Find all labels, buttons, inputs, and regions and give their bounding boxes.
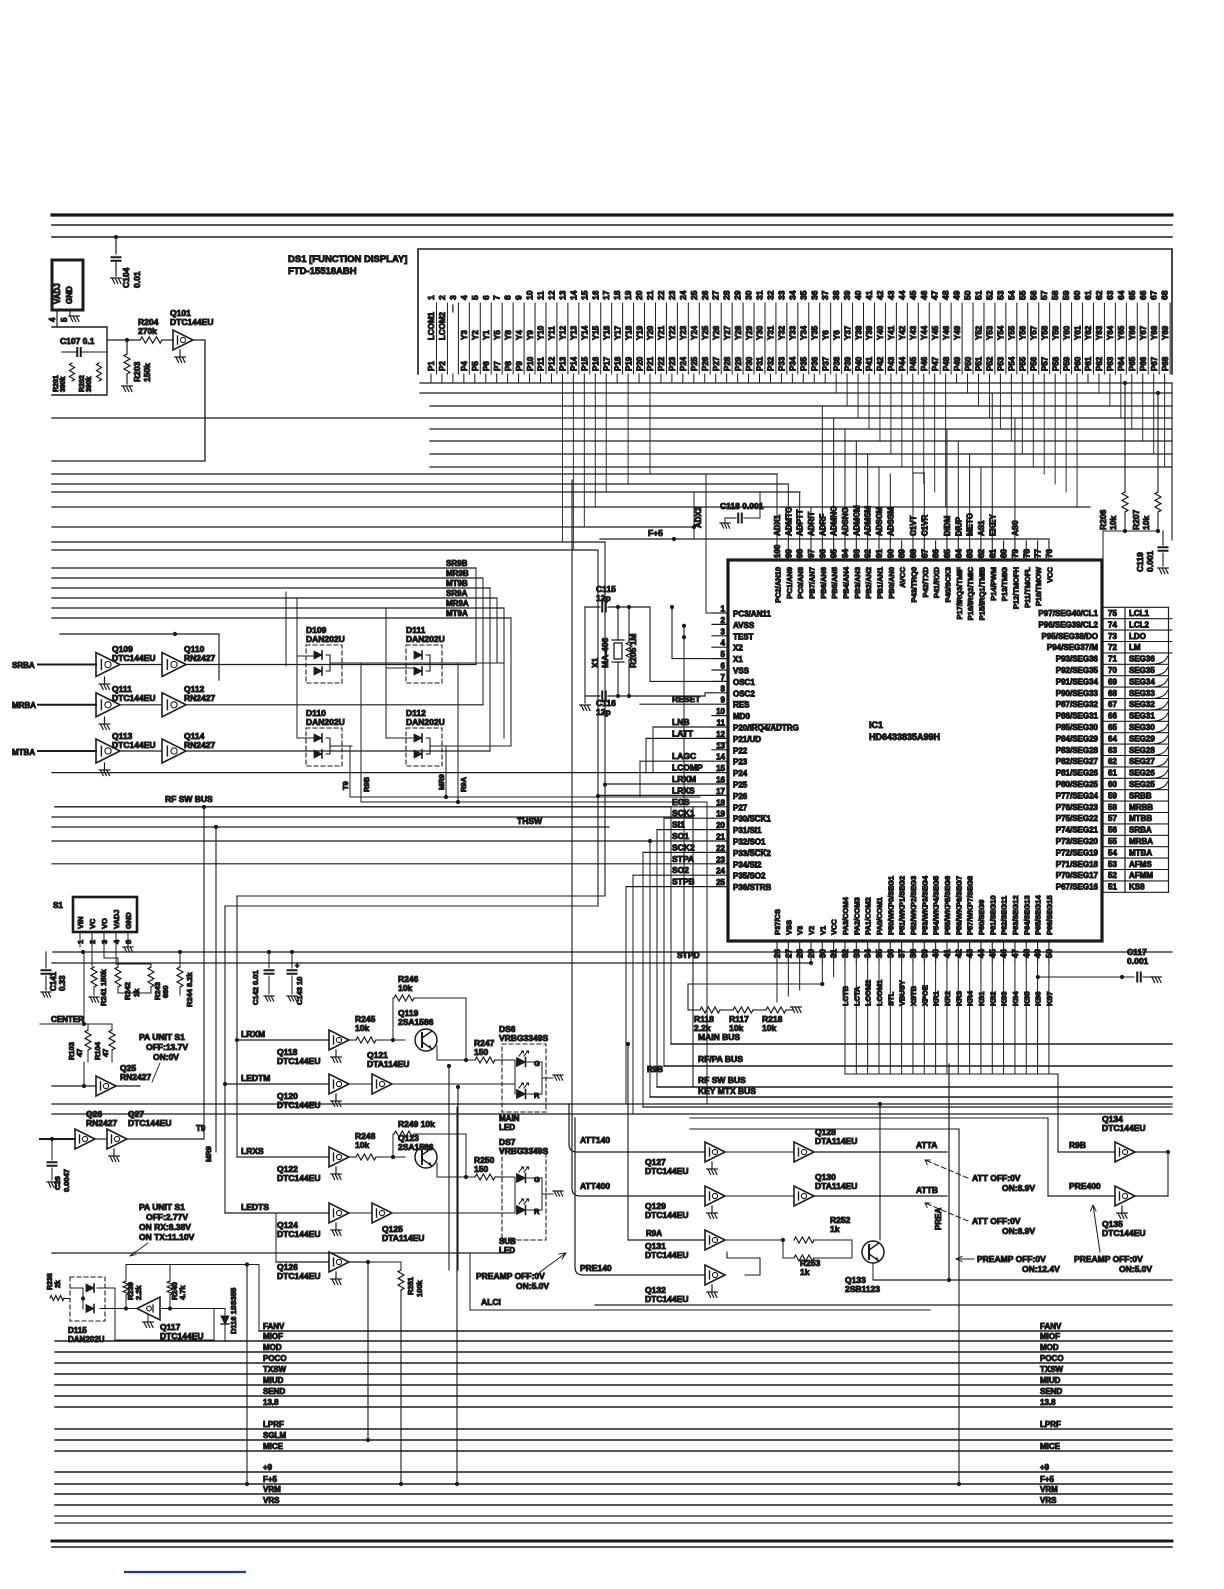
svg-text:4.7k: 4.7k xyxy=(178,1285,187,1300)
IC1 pin 6 VSS xyxy=(712,669,728,671)
svg-text:Y65: Y65 xyxy=(1117,325,1126,340)
svg-text:Y69: Y69 xyxy=(1161,325,1170,340)
svg-text:Y63: Y63 xyxy=(1095,325,1104,340)
svg-text:1k: 1k xyxy=(800,1267,810,1277)
svg-text:RF SW BUS: RF SW BUS xyxy=(165,794,213,804)
svg-text:P23: P23 xyxy=(668,356,677,371)
junction dots bottom xyxy=(245,1482,249,1486)
svg-text:DTC144EU: DTC144EU xyxy=(112,693,155,703)
svg-text:70: 70 xyxy=(1108,666,1117,675)
resistor R243 680 xyxy=(148,967,154,987)
resistor R242 1k xyxy=(117,958,119,966)
svg-text:2SB1123: 2SB1123 xyxy=(845,1284,880,1294)
svg-text:2SA1586: 2SA1586 xyxy=(398,1017,434,1027)
IC1 pin 15 P24 xyxy=(712,772,728,774)
svg-text:VRBG3349S: VRBG3349S xyxy=(499,1033,548,1043)
IC1 pin 10 MD0 xyxy=(712,715,728,717)
svg-text:Y40: Y40 xyxy=(876,325,885,340)
IC1 pin 7 OSC1 xyxy=(712,680,728,682)
svg-text:R251: R251 xyxy=(406,1277,415,1295)
svg-text:63: 63 xyxy=(1105,290,1115,300)
bus SGLM xyxy=(55,1439,1172,1441)
svg-text:ON:0V: ON:0V xyxy=(153,1052,179,1062)
capacitor C104 xyxy=(115,237,117,254)
resistor R241 150k xyxy=(91,947,93,966)
wire bus line y429 xyxy=(430,428,1172,430)
svg-text:P32: P32 xyxy=(767,356,776,371)
wire DS6 anode join xyxy=(514,1062,516,1094)
svg-text:P40/SCK3: P40/SCK3 xyxy=(943,567,952,602)
svg-text:T9: T9 xyxy=(196,1124,206,1133)
svg-text:67: 67 xyxy=(1108,700,1117,709)
svg-text:VO: VO xyxy=(100,918,109,929)
svg-text:Y3: Y3 xyxy=(460,330,469,340)
svg-text:F+5: F+5 xyxy=(263,1475,278,1484)
svg-text:VSS: VSS xyxy=(784,920,793,935)
svg-text:8: 8 xyxy=(503,295,513,300)
svg-text:54: 54 xyxy=(1108,848,1117,857)
svg-text:X1: X1 xyxy=(733,655,743,664)
svg-text:60: 60 xyxy=(1108,780,1117,789)
wire bus line y383 xyxy=(420,382,1172,384)
svg-text:IC1: IC1 xyxy=(869,720,883,730)
svg-text:DTC144EU: DTC144EU xyxy=(277,1056,320,1066)
svg-text:P22: P22 xyxy=(733,746,748,755)
wire lower rail y1253 xyxy=(52,1252,510,1254)
svg-text:DTC144EU: DTC144EU xyxy=(645,1250,688,1260)
svg-text:PB4/AN4: PB4/AN4 xyxy=(841,566,850,599)
svg-text:P29: P29 xyxy=(734,356,743,371)
svg-text:DAN202U: DAN202U xyxy=(68,1335,105,1344)
svg-text:5: 5 xyxy=(721,650,726,659)
svg-text:72: 72 xyxy=(1108,643,1117,652)
svg-text:50: 50 xyxy=(963,290,973,300)
IC1 pin 2 AVSS xyxy=(712,623,728,625)
svg-text:Y39: Y39 xyxy=(865,325,874,340)
svg-text:C118 0.001: C118 0.001 xyxy=(720,501,764,511)
svg-text:P33/SCK2: P33/SCK2 xyxy=(733,849,771,858)
svg-text:40: 40 xyxy=(853,290,863,300)
svg-text:F+5: F+5 xyxy=(648,528,663,538)
svg-text:Y45: Y45 xyxy=(931,325,940,340)
svg-text:P64: P64 xyxy=(1117,356,1126,371)
node FANV branch xyxy=(258,1265,260,1332)
svg-text:58: 58 xyxy=(1108,803,1117,812)
svg-text:MOD: MOD xyxy=(263,1343,282,1352)
svg-text:PRE400: PRE400 xyxy=(1069,1181,1101,1191)
bus FANV xyxy=(259,1330,1172,1332)
svg-text:P43/TRQ0: P43/TRQ0 xyxy=(909,567,918,602)
svg-text:ON:8.9V: ON:8.9V xyxy=(1002,1226,1035,1236)
svg-text:SRBA: SRBA xyxy=(12,661,35,670)
svg-text:P57/WKP7/SEG8: P57/WKP7/SEG8 xyxy=(966,876,975,935)
svg-text:65: 65 xyxy=(1108,723,1117,732)
svg-text:PB1/AN1: PB1/AN1 xyxy=(875,567,884,599)
svg-text:DTC144EU: DTC144EU xyxy=(645,1166,688,1176)
svg-text:ON:8.9V: ON:8.9V xyxy=(1002,1183,1035,1193)
svg-text:35: 35 xyxy=(798,290,808,300)
svg-text:LM: LM xyxy=(1129,643,1141,652)
svg-text:Y11: Y11 xyxy=(548,326,557,340)
svg-text:SEG25: SEG25 xyxy=(1129,780,1155,789)
svg-text:VADJ: VADJ xyxy=(53,283,62,304)
svg-text:270k: 270k xyxy=(138,326,157,336)
svg-text:Y19: Y19 xyxy=(635,325,644,340)
svg-text:MIUD: MIUD xyxy=(263,1376,284,1385)
svg-text:44: 44 xyxy=(897,290,907,300)
svg-text:71: 71 xyxy=(1108,655,1117,664)
svg-text:43: 43 xyxy=(886,290,896,300)
svg-text:G: G xyxy=(534,1175,540,1184)
svg-text:MAIN BUS: MAIN BUS xyxy=(698,1032,740,1042)
svg-text:P73/SEG20: P73/SEG20 xyxy=(1056,837,1099,846)
wire bus line y454 xyxy=(430,453,1172,455)
wire AVSS TEST join xyxy=(683,626,685,637)
svg-text:VRM: VRM xyxy=(263,1485,281,1494)
svg-text:48: 48 xyxy=(941,290,951,300)
svg-text:P86/SEG31: P86/SEG31 xyxy=(1056,712,1099,721)
svg-text:P37/CS: P37/CS xyxy=(773,909,782,935)
svg-text:55: 55 xyxy=(1017,290,1027,300)
svg-text:DTA114EU: DTA114EU xyxy=(815,1181,857,1191)
svg-text:Y5: Y5 xyxy=(493,330,502,340)
svg-text:PA0/COM1: PA0/COM1 xyxy=(875,897,884,935)
wire DS1 pin drops to bus xyxy=(824,382,826,383)
wire bottom border thick xyxy=(52,1540,1172,1543)
svg-text:LCOM1: LCOM1 xyxy=(427,311,436,340)
svg-text:18: 18 xyxy=(612,290,622,300)
svg-text:SEG35: SEG35 xyxy=(1129,666,1155,675)
svg-text:Y30: Y30 xyxy=(756,325,765,340)
svg-text:MT9A: MT9A xyxy=(446,609,468,618)
svg-text:26: 26 xyxy=(700,290,710,300)
svg-text:PC2/AN10: PC2/AN10 xyxy=(774,567,783,603)
svg-text:59: 59 xyxy=(1108,791,1117,800)
bus MIUD xyxy=(55,1384,1172,1386)
svg-text:66: 66 xyxy=(1138,290,1148,300)
svg-text:SEG36: SEG36 xyxy=(1129,655,1155,664)
svg-text:DTC144EU: DTC144EU xyxy=(645,1294,688,1304)
svg-text:STPA: STPA xyxy=(672,854,694,864)
svg-text:POCO: POCO xyxy=(1040,1354,1064,1363)
svg-text:R9B: R9B xyxy=(647,1065,663,1074)
svg-text:4: 4 xyxy=(721,639,726,648)
svg-text:MTBA: MTBA xyxy=(12,748,35,757)
overlines on active-low pin names xyxy=(733,700,747,702)
svg-text:Y6: Y6 xyxy=(821,330,830,340)
svg-text:LATT: LATT xyxy=(672,728,694,738)
svg-text:ATTA: ATTA xyxy=(916,1140,937,1150)
svg-text:8: 8 xyxy=(721,684,726,693)
svg-text:0.001: 0.001 xyxy=(1127,956,1149,966)
svg-text:Y31: Y31 xyxy=(767,325,776,340)
wire bus line y418 xyxy=(52,417,1172,419)
svg-text:57: 57 xyxy=(1039,290,1049,300)
box KR KS bottom rail xyxy=(845,1073,1058,1075)
svg-text:MT9B: MT9B xyxy=(446,579,468,588)
svg-text:DTC144EU: DTC144EU xyxy=(1102,1228,1145,1238)
svg-text:P35: P35 xyxy=(800,356,809,371)
wire PREA vertical xyxy=(948,1064,950,1280)
svg-text:P27: P27 xyxy=(733,803,748,812)
svg-text:Y18: Y18 xyxy=(602,325,611,340)
svg-text:12: 12 xyxy=(546,290,556,300)
svg-text:7: 7 xyxy=(721,673,726,682)
IC1 pin 22 P33/SCK2 xyxy=(712,851,728,853)
svg-text:FANV: FANV xyxy=(1040,1322,1062,1331)
svg-text:P24: P24 xyxy=(679,356,688,371)
svg-text:P30/SCK1: P30/SCK1 xyxy=(733,815,771,824)
bus LPRF xyxy=(55,1428,1172,1430)
wire Q126 output xyxy=(349,1261,368,1263)
wire IC1 top pin risers xyxy=(776,474,778,541)
svg-text:390k: 390k xyxy=(86,376,93,392)
svg-text:3: 3 xyxy=(721,627,726,636)
svg-text:P60: P60 xyxy=(1073,356,1082,371)
wire bus line y441 xyxy=(430,440,1172,442)
svg-text:RES: RES xyxy=(733,701,750,710)
svg-text:VRS: VRS xyxy=(263,1496,280,1505)
IC1 pin 25 P36/STRB xyxy=(712,886,728,888)
svg-text:DTC144EU: DTC144EU xyxy=(160,1331,203,1341)
wire right edge drop xyxy=(1171,383,1173,540)
svg-text:53: 53 xyxy=(1108,860,1117,869)
svg-text:SEG26: SEG26 xyxy=(1129,769,1155,778)
wire box outline lower mid xyxy=(958,1129,960,1484)
wire bus line y492 xyxy=(52,491,800,493)
svg-text:LCL1: LCL1 xyxy=(1129,609,1150,618)
svg-text:14: 14 xyxy=(716,753,725,762)
svg-text:Y21: Y21 xyxy=(657,325,666,340)
svg-text:45: 45 xyxy=(908,290,918,300)
svg-text:P67: P67 xyxy=(1150,356,1159,371)
wire pin drops below IC xyxy=(776,962,778,1002)
svg-text:Y33: Y33 xyxy=(789,325,798,340)
svg-text:Y23: Y23 xyxy=(679,325,688,340)
svg-text:22: 22 xyxy=(716,844,725,853)
wire bus line y474 xyxy=(52,473,777,475)
svg-text:FANV: FANV xyxy=(263,1322,285,1331)
svg-text:Y55: Y55 xyxy=(1008,325,1017,340)
svg-text:ATT140: ATT140 xyxy=(580,1135,610,1145)
svg-text:P22: P22 xyxy=(657,356,666,371)
svg-text:LED: LED xyxy=(499,1123,515,1132)
svg-text:PC0/AN8: PC0/AN8 xyxy=(796,567,805,599)
wire y1305 rail xyxy=(595,1304,1172,1306)
svg-text:24: 24 xyxy=(678,290,688,300)
svg-text:AVSS: AVSS xyxy=(733,621,755,630)
svg-text:Y13: Y13 xyxy=(570,325,579,340)
svg-text:P56/WKP6/SEG7: P56/WKP6/SEG7 xyxy=(954,876,963,935)
svg-text:LED: LED xyxy=(499,1246,515,1255)
IC1 pin 16 P25 xyxy=(712,783,728,785)
svg-text:SEG34: SEG34 xyxy=(1129,677,1155,686)
svg-text:P58: P58 xyxy=(1051,356,1060,371)
svg-text:51: 51 xyxy=(974,290,984,300)
svg-text:P55: P55 xyxy=(1019,356,1028,371)
svg-text:P36: P36 xyxy=(810,356,819,371)
wire Q101 output xyxy=(52,340,205,461)
svg-text:56: 56 xyxy=(1028,290,1038,300)
svg-text:Y43: Y43 xyxy=(909,325,918,340)
svg-text:P75/SEG22: P75/SEG22 xyxy=(1056,814,1099,823)
svg-text:4: 4 xyxy=(48,317,57,322)
IC1 pin 24 P35/SO2 xyxy=(712,874,728,876)
svg-text:20: 20 xyxy=(716,821,725,830)
node SR9A xyxy=(52,597,497,599)
svg-text:R241 150k: R241 150k xyxy=(99,968,108,1006)
svg-text:P56: P56 xyxy=(1029,356,1038,371)
svg-text:P2: P2 xyxy=(438,361,447,371)
svg-text:15: 15 xyxy=(716,764,725,773)
svg-text:V2: V2 xyxy=(807,926,816,935)
svg-text:47: 47 xyxy=(101,1049,110,1057)
svg-text:P71/SEG18: P71/SEG18 xyxy=(1056,860,1099,869)
wire unlabeled bottom lines xyxy=(55,1515,1172,1517)
svg-text:54: 54 xyxy=(1006,290,1016,300)
svg-text:P68: P68 xyxy=(1161,356,1170,371)
svg-text:MR9B: MR9B xyxy=(446,569,469,578)
svg-text:ADX2: ADX2 xyxy=(694,506,703,528)
svg-text:47: 47 xyxy=(930,290,940,300)
svg-text:0.0047: 0.0047 xyxy=(62,1169,71,1192)
svg-text:18: 18 xyxy=(716,798,725,807)
svg-text:P87/SEG32: P87/SEG32 xyxy=(1056,700,1099,709)
svg-text:Y1: Y1 xyxy=(482,330,491,340)
svg-text:RF SW BUS: RF SW BUS xyxy=(698,1075,746,1085)
IC1 pin 13 P22 xyxy=(712,749,728,751)
svg-text:150: 150 xyxy=(474,1164,488,1174)
svg-text:4: 4 xyxy=(459,295,469,300)
svg-text:P61/SEG10: P61/SEG10 xyxy=(988,895,997,935)
svg-text:X2: X2 xyxy=(733,644,743,653)
svg-text:MR9: MR9 xyxy=(437,774,446,790)
svg-text:Y9: Y9 xyxy=(526,330,535,340)
svg-text:21: 21 xyxy=(645,290,655,300)
svg-text:P63: P63 xyxy=(1106,356,1115,371)
svg-text:DS1 [FUNCTION DISPLAY]: DS1 [FUNCTION DISPLAY] xyxy=(288,254,407,265)
svg-text:P64/SEG13: P64/SEG13 xyxy=(1022,895,1031,935)
svg-text:SR9A: SR9A xyxy=(446,589,468,598)
svg-text:24: 24 xyxy=(716,867,725,876)
ground X1 xyxy=(584,607,586,703)
svg-text:STPB: STPB xyxy=(672,877,695,887)
svg-text:P34: P34 xyxy=(789,356,798,371)
svg-text:Y28: Y28 xyxy=(734,325,743,340)
svg-text:P19: P19 xyxy=(624,356,633,371)
svg-text:SEND: SEND xyxy=(1040,1387,1062,1396)
svg-text:6: 6 xyxy=(481,295,491,300)
svg-text:P30: P30 xyxy=(745,356,754,371)
node MR9B xyxy=(52,577,483,579)
svg-text:P70/SEG17: P70/SEG17 xyxy=(1056,871,1099,880)
svg-text:49: 49 xyxy=(952,290,962,300)
wire Q109-Q114 frame xyxy=(60,633,175,635)
svg-text:R244 8.2k: R244 8.2k xyxy=(185,972,194,1007)
svg-text:P26: P26 xyxy=(701,356,710,371)
svg-text:10k: 10k xyxy=(398,983,412,993)
wire top border thick xyxy=(52,213,1172,216)
ground S1 GND xyxy=(69,310,71,315)
svg-text:MIOF: MIOF xyxy=(1040,1332,1060,1341)
bus +9 xyxy=(55,1471,1172,1473)
svg-text:CENTER: CENTER xyxy=(51,1015,84,1024)
wire right column ladder rails xyxy=(1102,607,1104,892)
svg-text:MRBA: MRBA xyxy=(1129,837,1153,846)
svg-text:Y32: Y32 xyxy=(778,325,787,340)
svg-text:P11: P11 xyxy=(537,357,546,371)
svg-text:P14/PWM: P14/PWM xyxy=(989,567,998,601)
node MR9A xyxy=(52,607,504,609)
svg-text:63: 63 xyxy=(1108,746,1117,755)
svg-text:P91/SEG34: P91/SEG34 xyxy=(1056,677,1099,686)
svg-text:MIUD: MIUD xyxy=(1040,1376,1061,1385)
svg-text:13.8: 13.8 xyxy=(263,1398,279,1407)
bus F+5 xyxy=(55,1483,1172,1485)
svg-text:R203: R203 xyxy=(132,361,142,382)
svg-text:P25: P25 xyxy=(690,356,699,371)
svg-text:41: 41 xyxy=(864,290,874,300)
svg-text:SR9B: SR9B xyxy=(446,559,468,568)
svg-text:P34/SI2: P34/SI2 xyxy=(733,860,762,869)
svg-text:Y61: Y61 xyxy=(1073,325,1082,340)
svg-text:5: 5 xyxy=(60,317,69,322)
svg-text:TXSW: TXSW xyxy=(263,1365,287,1374)
svg-text:P63/SEG12: P63/SEG12 xyxy=(1011,895,1020,935)
connector S1 partial box top-left xyxy=(52,260,83,310)
svg-text:P21: P21 xyxy=(646,356,655,371)
svg-text:SEND: SEND xyxy=(263,1387,285,1396)
svg-text:DAN202U: DAN202U xyxy=(306,717,345,727)
wire bus line y507 xyxy=(52,506,1090,508)
svg-text:DTC144EU: DTC144EU xyxy=(112,653,155,663)
svg-text:Y10: Y10 xyxy=(537,325,546,340)
svg-text:2.2k: 2.2k xyxy=(134,1285,143,1300)
svg-text:ON:5.0V: ON:5.0V xyxy=(1119,1264,1152,1274)
svg-text:P67/SEG16: P67/SEG16 xyxy=(1056,883,1099,892)
svg-text:390k: 390k xyxy=(60,376,67,392)
svg-text:P85/SEG30: P85/SEG30 xyxy=(1056,723,1099,732)
svg-text:3: 3 xyxy=(448,295,458,300)
svg-text:ATT OFF:0V: ATT OFF:0V xyxy=(972,1173,1021,1183)
svg-text:PREAMP OFF:0V: PREAMP OFF:0V xyxy=(476,1271,545,1281)
wire left label staircase drops xyxy=(652,727,654,773)
svg-text:P51/WKP1/SEG2: P51/WKP1/SEG2 xyxy=(898,876,907,935)
svg-text:39: 39 xyxy=(842,290,852,300)
svg-text:MTBA: MTBA xyxy=(1129,848,1152,857)
svg-text:S1: S1 xyxy=(53,901,63,910)
svg-text:25: 25 xyxy=(716,878,725,887)
svg-text:POCO: POCO xyxy=(263,1354,287,1363)
svg-text:R249 10k: R249 10k xyxy=(398,1119,435,1129)
svg-text:P40: P40 xyxy=(854,356,863,371)
svg-text:74: 74 xyxy=(1108,620,1117,629)
svg-text:P53/WKP3/SEG4: P53/WKP3/SEG4 xyxy=(920,875,929,935)
IC1 pin 17 P26 xyxy=(712,794,728,796)
svg-text:68: 68 xyxy=(1160,290,1170,300)
svg-text:Y58: Y58 xyxy=(1040,325,1049,340)
svg-text:13: 13 xyxy=(557,290,567,300)
svg-text:P38: P38 xyxy=(832,356,841,371)
svg-text:PA3/COM4: PA3/COM4 xyxy=(841,896,850,935)
wire top line 3 xyxy=(52,236,1172,238)
svg-text:P20: P20 xyxy=(635,356,644,371)
svg-text:GND: GND xyxy=(65,286,74,304)
wire y1280 rail xyxy=(873,1279,1172,1281)
svg-text:DTC144EU: DTC144EU xyxy=(277,1229,320,1239)
ground DS6 xyxy=(542,1077,553,1079)
svg-text:1: 1 xyxy=(426,295,436,300)
